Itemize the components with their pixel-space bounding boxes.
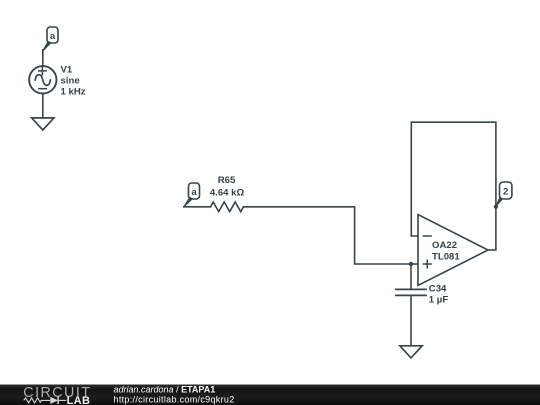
svg-text:C34: C34 (429, 283, 447, 294)
label C34 1uF (429, 283, 449, 305)
svg-text:a: a (191, 187, 197, 198)
svg-text:a: a (50, 31, 56, 42)
svg-text:4.64 kΩ: 4.64 kΩ (210, 187, 245, 198)
svg-text:TL081: TL081 (432, 252, 460, 263)
node junction (input / C34) (409, 262, 413, 266)
svg-text:V1: V1 (61, 65, 73, 76)
label R65 4.64 kOhm (210, 175, 245, 198)
svg-text:2: 2 (503, 186, 508, 197)
capacitor C34 (396, 289, 426, 295)
resistor R65 (211, 202, 244, 212)
node a flag (at R65 input) (184, 183, 199, 206)
node 2 flag (output) (494, 182, 512, 209)
svg-text:adrian.cardona / ETAPA1: adrian.cardona / ETAPA1 (114, 385, 216, 395)
svg-text:LAB: LAB (67, 395, 91, 405)
footer bar (0, 385, 540, 405)
ground (below V1) (32, 118, 54, 130)
wire V1 bottom to ground (42, 94, 44, 118)
wire feedback loop: output up over to - input (411, 122, 496, 250)
voltage source V1 (29, 66, 56, 93)
op-amp OA22 TL081 (418, 215, 488, 286)
svg-text:http://circuitlab.com/c9qkru2: http://circuitlab.com/c9qkru2 (114, 394, 235, 404)
wire junction down to C34 (410, 264, 412, 289)
svg-text:R65: R65 (218, 175, 236, 186)
label V1 sine 1kHz (61, 65, 86, 98)
wire flag-a to R65 (184, 206, 211, 208)
svg-text:OA22: OA22 (432, 240, 457, 251)
svg-text:1 µF: 1 µF (429, 295, 449, 306)
wire junction to + pin (411, 263, 418, 265)
wire C34 to ground (410, 295, 412, 345)
svg-text:sine: sine (61, 76, 80, 87)
ground (below C34) (400, 346, 422, 358)
node a flag (at source V1) (43, 27, 58, 50)
CircuitLab logo: resistor-diode strip + LAB (24, 397, 67, 404)
label OA22 TL081 (432, 240, 460, 263)
svg-text:1 kHz: 1 kHz (61, 87, 86, 98)
wire flag-a to V1 top (42, 50, 44, 66)
wire R65 to op-amp + input (243, 207, 411, 264)
